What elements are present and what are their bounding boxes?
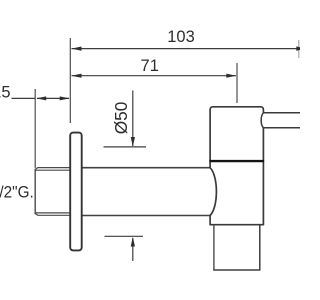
valve body [210, 107, 263, 225]
dimension diameter 50 : down arrow line [132, 91, 134, 147]
dimension 103 : left arrowhead [71, 47, 81, 51]
dimension 71 : dimension line [72, 75, 237, 77]
dimension diameter 50 : down arrowhead [131, 137, 135, 147]
dimension 103 : right arrowhead [296, 46, 306, 50]
svg-text:71: 71 [141, 57, 159, 75]
dimension 15 : extension line [34, 89, 36, 168]
svg-text:103: 103 [167, 28, 195, 46]
outlet spout [213, 225, 260, 270]
dimension 103 : extension line right [298, 40, 300, 58]
dimension 103 : dimension line [72, 48, 298, 50]
dimension 71 : right arrowhead [226, 74, 236, 78]
handle lever [261, 113, 300, 128]
svg-text:15: 15 [0, 84, 11, 102]
dimension 15 : left arrowhead [36, 96, 46, 100]
svg-text:Ø50: Ø50 [111, 102, 131, 135]
body divider line (cartridge joint) [209, 160, 264, 162]
dimension diameter 50 : up arrow line [132, 238, 134, 261]
dimension diameter 50 : up arrowhead [131, 237, 135, 247]
dimension 71 : left arrowhead [71, 74, 81, 78]
dimension 103 : extension line left [69, 38, 71, 123]
threaded nipple 1/2"G [35, 168, 70, 216]
dimension 15 : double arrow line [37, 97, 69, 99]
dimension diameter 50 : top extension line [104, 146, 147, 148]
dimension 71 : extension line right [236, 63, 238, 103]
wall pipe cylinder (horizontal tube) [81, 168, 211, 216]
dimension 15 : leader line [12, 97, 36, 99]
svg-text:1/2"G.: 1/2"G. [0, 183, 34, 202]
dimension diameter 50 : bottom extension line [105, 235, 144, 237]
wall flange [70, 133, 82, 251]
dimension 15 : right arrowhead [60, 96, 70, 100]
